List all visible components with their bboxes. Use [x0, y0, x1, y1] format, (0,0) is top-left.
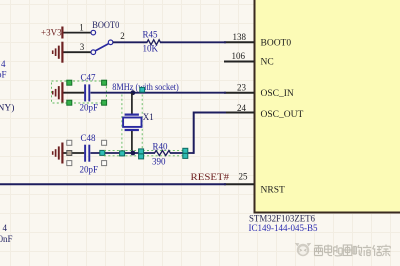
C47 left lead	[64, 92, 85, 94]
switch blade	[96, 44, 109, 51]
power port +3V3 bar	[61, 27, 63, 39]
switch pin 1 circle	[91, 30, 96, 35]
svg-text:8MHz (with socket): 8MHz (with socket)	[112, 82, 179, 92]
switch pin 3 circle	[91, 50, 96, 55]
watermark text 画电路图的小作家	[315, 245, 391, 257]
pin 138 stub	[224, 41, 254, 43]
svg-text:+3V3: +3V3	[41, 28, 62, 38]
crystal X1 bottom plate	[125, 129, 139, 131]
svg-text:3: 3	[80, 42, 85, 52]
svg-text:25: 25	[239, 172, 249, 182]
ground (C47)	[53, 82, 63, 103]
svg-text:1: 1	[79, 23, 84, 33]
teal handle pair (x=185)	[183, 148, 188, 153]
svg-text:OSC_IN: OSC_IN	[261, 89, 294, 99]
svg-text:0nF: 0nF	[0, 234, 13, 244]
switch S pin3 lead	[64, 51, 91, 53]
crystal X1 top plate	[125, 113, 139, 115]
svg-text:20pF: 20pF	[80, 102, 99, 112]
switch pin 2 circle	[108, 40, 113, 45]
svg-text:138: 138	[233, 32, 247, 42]
pin 25 stub	[224, 183, 254, 185]
svg-text:BOOT0: BOOT0	[92, 20, 119, 30]
svg-text:NRST: NRST	[261, 186, 285, 196]
svg-text:4: 4	[3, 223, 8, 233]
C48 corner handles (open)	[67, 140, 107, 165]
switch S pin1 lead	[64, 32, 91, 34]
C47 selection dashed box	[52, 81, 107, 103]
wire R40 to corner	[170, 152, 194, 154]
svg-text:IC149-144-045-B5: IC149-144-045-B5	[249, 224, 318, 234]
svg-text:NC: NC	[261, 58, 274, 68]
wire NRST full width	[0, 183, 226, 185]
svg-text:C48: C48	[81, 133, 97, 143]
wire vertex handle (teal, OSC_IN)	[140, 87, 145, 92]
teal handle (X1 box bottom-left)	[120, 151, 125, 156]
selection dashes along wire	[104, 150, 183, 155]
svg-text:STM32F103ZET6: STM32F103ZET6	[249, 214, 315, 224]
svg-text:X1: X1	[143, 112, 154, 122]
svg-text:BOOT0: BOOT0	[261, 39, 292, 49]
teal handle on wire (left)	[100, 150, 105, 155]
junction (crystal top)	[131, 90, 136, 95]
C47 selection handles	[67, 80, 107, 105]
svg-text:20pF: 20pF	[80, 164, 99, 174]
svg-text:OSC_OUT: OSC_OUT	[261, 110, 304, 120]
crystal X1 bottom lead	[131, 131, 133, 153]
crystal X1 top lead	[131, 93, 133, 114]
svg-text:10K: 10K	[143, 44, 159, 54]
pin 24 stub	[224, 112, 254, 114]
capacitor C47 plates	[84, 84, 86, 101]
svg-text:R45: R45	[143, 30, 159, 40]
svg-text:RESET#: RESET#	[191, 172, 230, 182]
svg-text:R40: R40	[153, 142, 169, 152]
C48 left lead	[64, 152, 85, 154]
wire corner up to pin 24	[194, 113, 226, 154]
svg-text:24: 24	[237, 103, 247, 113]
wire C47 to pin 23	[91, 92, 227, 94]
pin 106 stub	[224, 61, 254, 63]
wire pin2 to R45	[113, 41, 148, 43]
junction (crystal bottom)	[131, 151, 136, 156]
wire R45 to pin 138	[160, 41, 226, 43]
capacitor C48 plates	[84, 145, 86, 162]
resistor R40	[155, 151, 171, 156]
svg-text:2: 2	[120, 31, 125, 41]
wire C48 to R40	[91, 152, 156, 154]
svg-text:390: 390	[152, 157, 166, 167]
svg-text:106: 106	[232, 51, 246, 61]
pin 23 stub	[224, 92, 254, 94]
grey handle on wire	[67, 151, 72, 156]
watermark logo	[295, 243, 312, 256]
svg-text:NY): NY)	[0, 103, 14, 114]
svg-text:23: 23	[237, 83, 247, 93]
crystal X1 body	[123, 118, 141, 127]
svg-text:4: 4	[1, 59, 6, 69]
ground (BOOT0 jumper)	[53, 42, 63, 63]
X1 selection dashed box	[122, 95, 142, 152]
teal handle pair (x=141)	[139, 149, 144, 154]
svg-text:pF: pF	[0, 69, 7, 79]
IC U? STM32F103ZET6 body	[255, 0, 400, 213]
resistor R45	[147, 40, 160, 45]
ground (C48)	[53, 143, 63, 164]
